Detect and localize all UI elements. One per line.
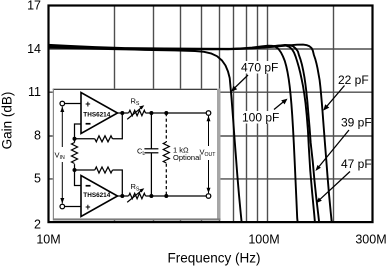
horizontal gridlines: [49, 49, 373, 179]
svg-text:Optional: Optional: [173, 153, 201, 162]
junction CL top: [149, 111, 153, 115]
curve label 39pF: [315, 116, 371, 172]
resistor RF1 (top feedback): [75, 113, 123, 142]
curve 47pF: [49, 45, 315, 222]
svg-text:100 pF: 100 pF: [242, 111, 279, 125]
junction CL bottom: [149, 194, 153, 198]
wire inverting input top: [75, 124, 82, 139]
svg-text:Gain (dB): Gain (dB): [0, 92, 15, 150]
curve label 22pF: [323, 73, 368, 111]
curve 470pF: [49, 46, 242, 223]
x tick labels: [36, 233, 386, 247]
resistor RS2 (bottom series): [118, 188, 207, 202]
svg-text:THS6214: THS6214: [83, 192, 110, 199]
VOUT measurement arrow: [207, 116, 211, 193]
svg-text:+: +: [85, 202, 90, 212]
VIN measurement arrow: [60, 107, 64, 204]
svg-text:10M: 10M: [36, 233, 60, 247]
curve label 100pF: [241, 99, 288, 125]
curve 100pF: [49, 46, 298, 222]
resistor RF2 (bottom feedback): [75, 167, 123, 196]
junction feedback bottom: [73, 168, 77, 172]
wire inverting input bottom: [75, 170, 82, 186]
svg-text:Frequency (Hz): Frequency (Hz): [167, 250, 260, 265]
op-amp U1b THS6214 (bottom): [81, 176, 118, 217]
input terminal (top): [60, 101, 65, 106]
svg-text:8: 8: [34, 128, 41, 142]
inset panel: [53, 89, 221, 221]
svg-text:300M: 300M: [355, 233, 386, 247]
svg-text:39 pF: 39 pF: [341, 116, 372, 130]
svg-text:17: 17: [27, 0, 41, 13]
curve 39pF: [49, 45, 320, 222]
plot frame: [49, 6, 373, 223]
svg-text:14: 14: [27, 42, 41, 56]
op-amp U1a THS6214 (top): [81, 93, 118, 134]
svg-text:2: 2: [34, 218, 41, 232]
input terminal (bottom): [60, 204, 65, 209]
svg-text:5: 5: [34, 172, 41, 186]
vertical gridlines: [115, 5, 334, 222]
curve label 470pF: [231, 61, 278, 92]
curve 22pF: [49, 45, 332, 222]
junction output bottom: [120, 194, 124, 198]
junction R1k top: [164, 111, 168, 115]
svg-text:100M: 100M: [248, 233, 279, 247]
resistor RS1 (top series): [118, 105, 207, 119]
resistor RG (gain): [72, 139, 78, 170]
capacitor CL: [144, 113, 158, 196]
svg-text:470 pF: 470 pF: [241, 61, 278, 75]
y tick labels: [27, 0, 41, 232]
junction feedback top: [73, 137, 77, 141]
svg-text:11: 11: [28, 85, 41, 99]
wire input top: [65, 103, 81, 105]
wire input bottom: [65, 206, 81, 208]
svg-text:+: +: [85, 99, 90, 109]
output terminal (top): [206, 111, 211, 116]
junction R1k bottom: [164, 194, 168, 198]
svg-text:22 pF: 22 pF: [338, 73, 369, 87]
junction output top: [120, 111, 124, 115]
output terminal (bottom): [206, 194, 211, 199]
resistor R1k 1k ohm optional (dashed connection): [163, 113, 169, 196]
svg-text:THS6214: THS6214: [83, 111, 110, 118]
curve label 47pF: [316, 157, 372, 203]
svg-text:47 pF: 47 pF: [341, 157, 372, 171]
